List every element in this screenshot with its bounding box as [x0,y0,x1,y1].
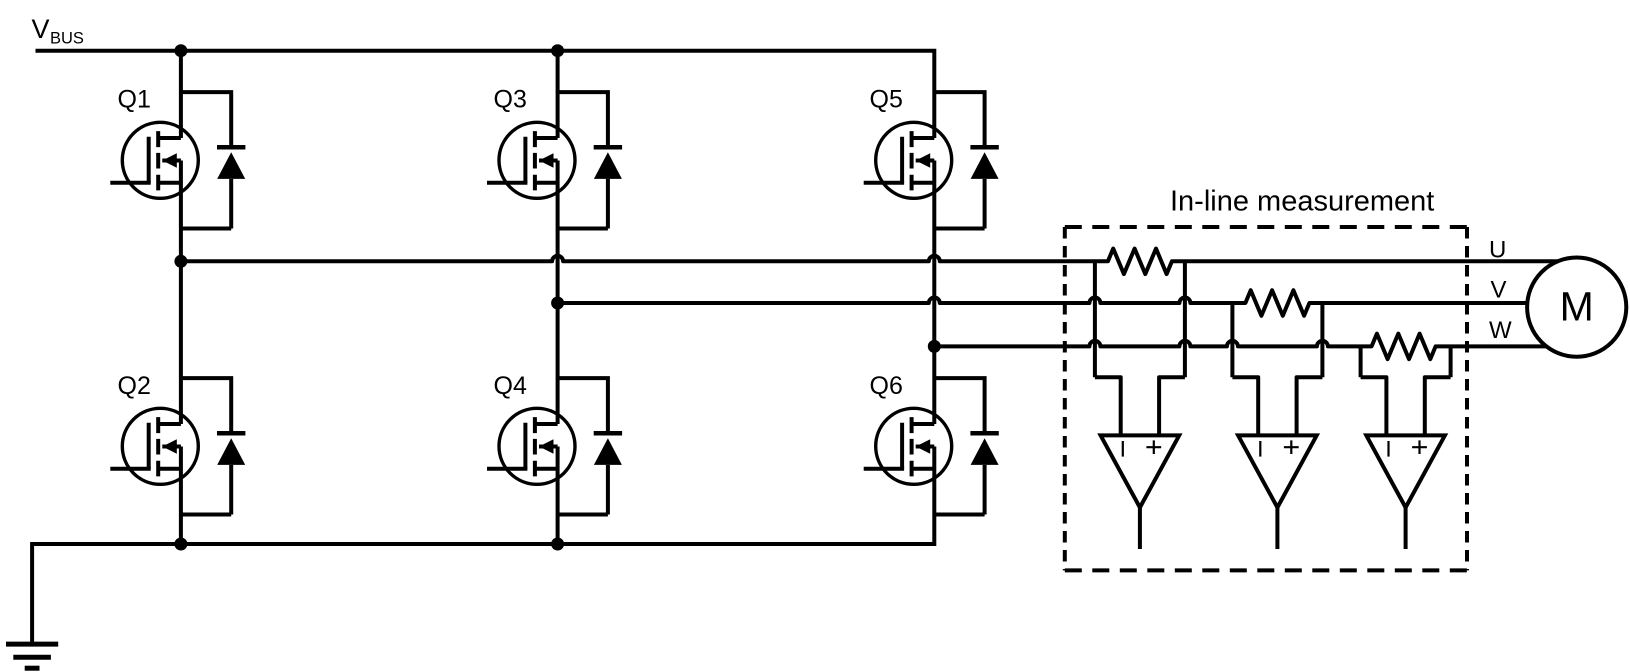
transistor Q4 [487,408,575,484]
wire: Q3 drain trunk [556,49,560,138]
op-amp A3 (phase W current sense) [1361,377,1451,549]
transistor Q2 [110,408,198,484]
body diode of Q1 [181,92,246,228]
wire: Q3 source trunk to node V [556,161,560,304]
body diode of Q5 [934,92,999,228]
node: bottom rail / Q2 junction [174,538,187,551]
node: phase V [551,297,564,310]
node: phase U [174,255,187,268]
wire: shunt U left sense tap [1093,261,1097,377]
body diode of Q3 [558,92,623,228]
svg-text:U: U [1489,237,1506,264]
op-amp A2 (phase V current sense) [1232,377,1322,549]
svg-text:W: W [1489,317,1512,344]
svg-text:Q3: Q3 [494,86,527,114]
svg-text:In-line measurement: In-line measurement [1170,185,1434,217]
svg-text:Q6: Q6 [870,372,903,400]
transistor Q3 [487,122,575,198]
wire: Q2 drain trunk from node U [179,261,183,424]
wire: Q4 source trunk to bottom rail [556,447,560,547]
svg-text:M: M [1560,284,1594,330]
wire: phase V line with wire hops and shunt resistor R-V zigzag [558,290,1528,316]
body diode of Q4 [558,378,623,514]
wire: Q4 drain trunk from node V [556,303,560,424]
motor M [1527,258,1626,357]
transistor Q6 [864,408,952,484]
node: phase W [928,340,941,353]
transistor Q1 [110,122,198,198]
node: bottom rail / Q4 junction [551,538,564,551]
wire: Q6 drain trunk from node W [932,346,936,424]
svg-text:Q2: Q2 [118,372,151,400]
svg-text:Q5: Q5 [870,86,903,114]
wire: shunt U right sense tap [1183,261,1187,377]
wire: shunt W right sense tap [1449,346,1453,377]
wire: Q5 source trunk to node W [932,161,936,347]
body diode of Q6 [934,378,999,514]
node: VBUS / Q3 junction [551,44,564,57]
wire: Q2 source trunk to bottom rail [179,447,183,547]
wire: phase U line with wire hops and shunt resistor R-U zigzag [181,249,1558,274]
body diode of Q2 [181,378,246,514]
wire: Q1 source trunk to node U [179,161,183,262]
wire: phase W line with wire hops and shunt resistor R-W zigzag [934,334,1546,360]
op-amp A1 (phase U current sense) [1095,377,1185,549]
svg-text:V: V [32,14,50,44]
node: VBUS / Q1 junction [174,44,187,57]
svg-text:Q1: Q1 [118,86,151,114]
transistor Q5 [864,122,952,198]
wire: shunt V right sense tap [1320,303,1324,377]
ground [6,644,58,668]
svg-text:Q4: Q4 [494,372,527,400]
wire: VBUS top rail with corner down into Q5 drain [36,51,935,138]
svg-text:V: V [1491,277,1507,304]
wire: ground return bottom rail from ground stem up through rail to Q6 source [32,447,934,645]
wire: shunt V left sense tap [1230,303,1234,377]
svg-text:BUS: BUS [50,30,84,48]
wire: shunt W left sense tap [1359,346,1363,377]
dashed in-line measurement boundary box [1065,227,1467,570]
wire: Q1 drain trunk [179,49,183,138]
